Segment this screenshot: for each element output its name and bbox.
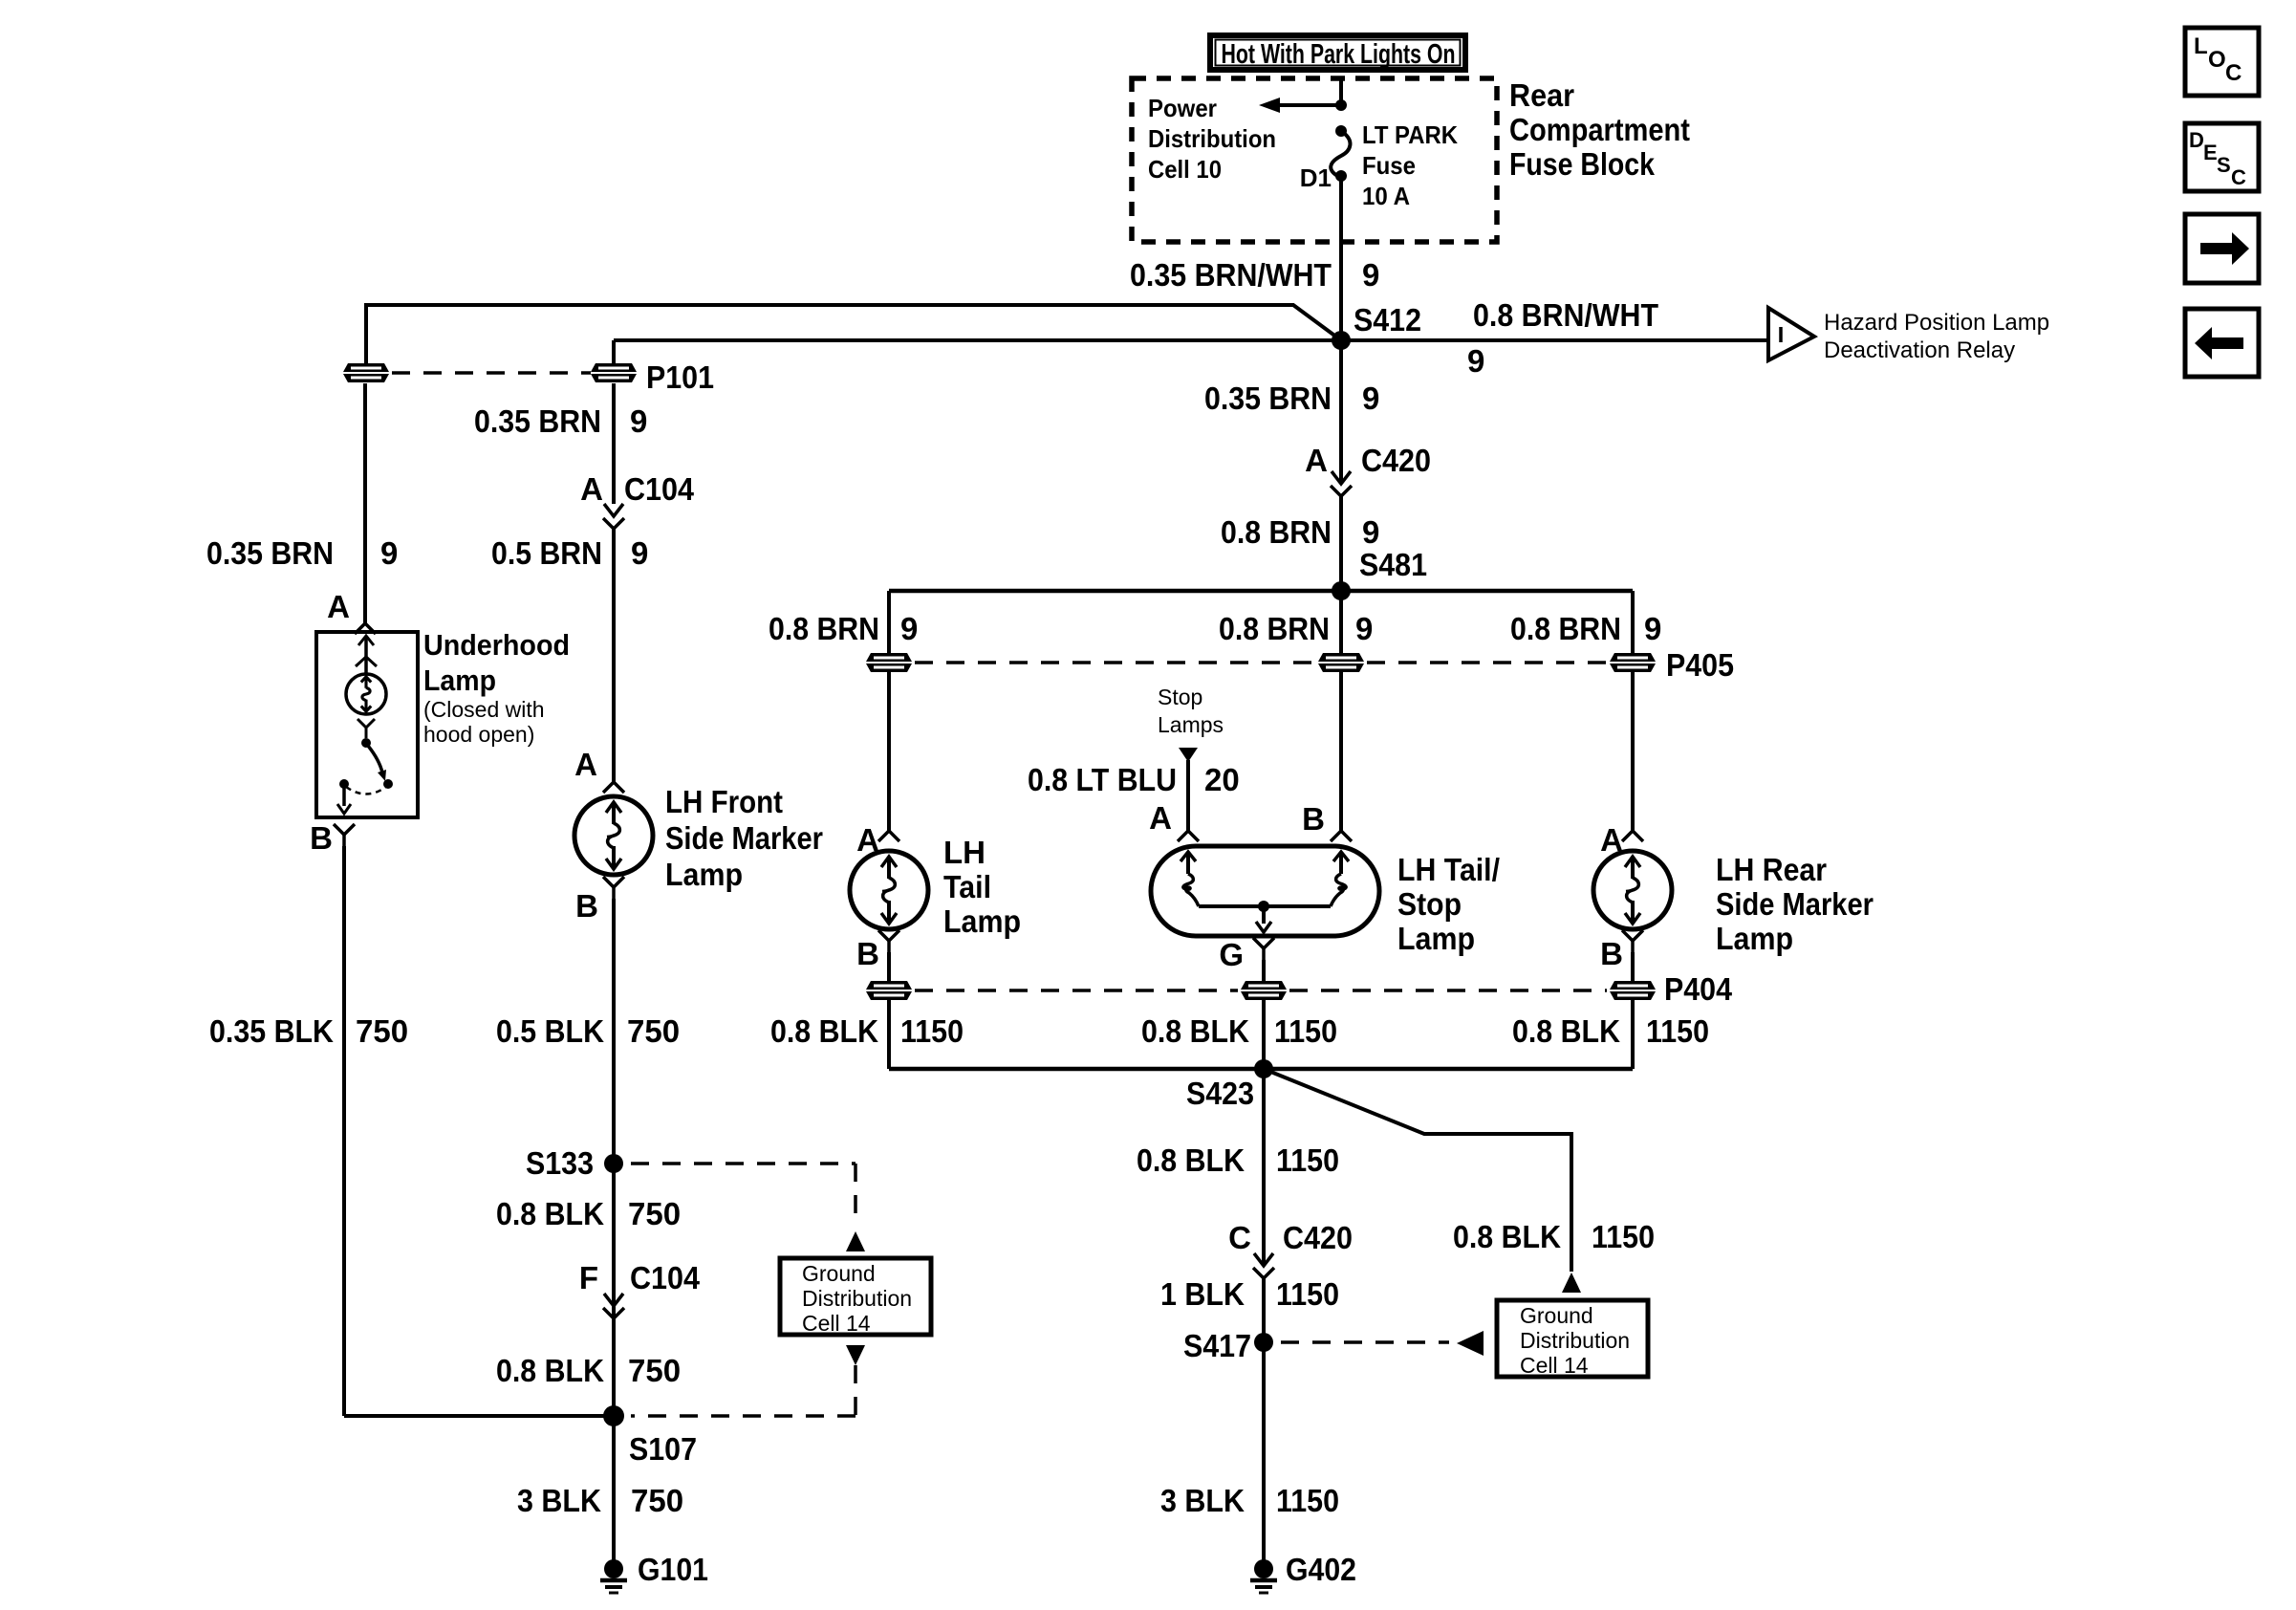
node S133	[604, 1154, 623, 1173]
dashed reference down to S107 bus	[854, 1365, 857, 1416]
svg-text:LH Tail/: LH Tail/	[1397, 852, 1500, 887]
wire to P404 center	[1262, 960, 1266, 981]
wire 0.35 BRN/WHT from fuse to S412	[1339, 176, 1343, 340]
wire to Power Distribution arrow	[1280, 103, 1341, 107]
wire to LH rear marker lamp	[1631, 672, 1635, 831]
svg-text:9: 9	[900, 611, 918, 646]
wire 0.8 BLK right	[1631, 1000, 1635, 1069]
wire branch S423 to right ground leg	[1264, 1069, 1571, 1272]
terminal fork B front marker	[603, 877, 624, 887]
svg-text:3 BLK: 3 BLK	[517, 1483, 601, 1518]
svg-text:Compartment: Compartment	[1509, 112, 1690, 147]
svg-text:0.8 BRN: 0.8 BRN	[769, 611, 879, 646]
svg-text:3 BLK: 3 BLK	[1160, 1483, 1245, 1518]
svg-text:Lamps: Lamps	[1158, 712, 1224, 737]
svg-text:L: L	[2194, 33, 2208, 59]
svg-text:750: 750	[628, 1196, 681, 1231]
wire bus to P101 left (0.35 BRN)	[366, 305, 1341, 363]
svg-text:750: 750	[356, 1013, 408, 1049]
svg-text:Distribution: Distribution	[1520, 1328, 1630, 1353]
connector P404 left grommet	[866, 981, 912, 1000]
svg-text:Power: Power	[1148, 94, 1217, 122]
svg-text:9: 9	[631, 535, 648, 571]
Ground Distribution Cell 14 box (right)	[1497, 1300, 1648, 1377]
DESC icon box	[2185, 123, 2259, 191]
svg-text:Side Marker: Side Marker	[665, 820, 823, 856]
connector P405 left grommet	[866, 653, 912, 672]
svg-text:Underhood: Underhood	[423, 628, 570, 662]
svg-text:B: B	[856, 936, 879, 971]
wire 0.35 BRN to underhood lamp	[363, 383, 367, 623]
wire 0.8 BLK left	[887, 1000, 891, 1069]
svg-text:C104: C104	[630, 1260, 701, 1295]
svg-text:0.8 BLK: 0.8 BLK	[1453, 1219, 1561, 1254]
svg-text:B: B	[1302, 801, 1325, 837]
connector C104 pin F	[604, 1294, 623, 1306]
svg-text:LH Rear: LH Rear	[1716, 852, 1827, 887]
wire 3 BLK 750 to G101	[612, 1416, 616, 1562]
wire 0.5 BRN to front marker lamp	[612, 529, 616, 782]
terminal caret rear marker	[1622, 831, 1643, 841]
ground G402	[1254, 1559, 1273, 1578]
hazard relay destination triangle	[1768, 308, 1814, 360]
svg-text:P404: P404	[1664, 971, 1733, 1007]
svg-text:S: S	[2217, 153, 2231, 177]
svg-text:0.8 BRN: 0.8 BRN	[1219, 611, 1330, 646]
svg-text:9: 9	[380, 535, 398, 571]
svg-text:1 BLK: 1 BLK	[1160, 1276, 1245, 1312]
svg-text:9: 9	[1362, 514, 1379, 550]
connector P404 center grommet	[1241, 981, 1287, 1000]
connector P405 right grommet	[1610, 653, 1656, 672]
svg-text:hood open): hood open)	[423, 722, 534, 747]
wire to LH tail/stop lamp B	[1339, 672, 1343, 831]
svg-text:Lamp: Lamp	[943, 903, 1021, 939]
ground G101	[604, 1559, 623, 1578]
svg-text:A: A	[327, 589, 350, 624]
svg-text:0.35 BRN: 0.35 BRN	[474, 403, 601, 439]
connector C420 pin C	[1254, 1253, 1273, 1266]
svg-text:B: B	[575, 888, 598, 924]
node S423	[1254, 1059, 1273, 1078]
svg-text:Lamp: Lamp	[1397, 921, 1475, 956]
node S481	[1332, 581, 1351, 600]
wire 0.8 BRN to S481	[1339, 496, 1343, 591]
svg-text:9: 9	[1467, 343, 1484, 379]
terminal fork B rear marker	[1622, 930, 1643, 941]
svg-text:F: F	[579, 1260, 598, 1295]
wire 0.35 BRN below P101	[612, 383, 616, 504]
node S107	[603, 1405, 624, 1426]
svg-text:1150: 1150	[1276, 1483, 1339, 1518]
arrow from stop lamps	[1179, 748, 1198, 762]
svg-text:Lamp: Lamp	[1716, 921, 1793, 956]
svg-text:9: 9	[1362, 257, 1379, 293]
svg-text:0.35 BLK: 0.35 BLK	[209, 1013, 334, 1049]
svg-text:0.8 BLK: 0.8 BLK	[1141, 1013, 1249, 1049]
wire 0.8 BRN right drop	[1631, 591, 1635, 653]
svg-text:1150: 1150	[1592, 1219, 1655, 1254]
terminal caret LH tail lamp	[878, 831, 899, 841]
svg-text:9: 9	[1362, 381, 1379, 416]
wire to P404 right	[1631, 952, 1635, 981]
dashed pass-through P101	[392, 371, 591, 375]
svg-text:Stop: Stop	[1158, 685, 1202, 709]
connector P405 center grommet	[1318, 653, 1364, 672]
wire 0.8 BRN center drop	[1339, 591, 1343, 653]
node S417	[1254, 1333, 1273, 1352]
svg-text:D1: D1	[1300, 163, 1332, 192]
svg-text:Cell 10: Cell 10	[1148, 155, 1222, 184]
tail/stop common lead	[1262, 906, 1266, 924]
svg-text:Side Marker: Side Marker	[1716, 886, 1874, 922]
svg-text:0.8 BLK: 0.8 BLK	[496, 1353, 604, 1388]
svg-text:S423: S423	[1186, 1076, 1254, 1111]
svg-text:Tail: Tail	[943, 869, 991, 904]
underhood lamp internal lead A	[364, 636, 368, 673]
dashed reference S417 to Ground Distribution	[1281, 1340, 1449, 1344]
svg-text:S417: S417	[1183, 1328, 1251, 1363]
connector P101 right grommet	[591, 363, 637, 382]
svg-text:20: 20	[1204, 762, 1240, 797]
underhood lamp bulb	[346, 674, 386, 714]
underhood lamp switch	[357, 719, 375, 728]
svg-text:Distribution: Distribution	[1148, 124, 1276, 153]
svg-text:C: C	[1228, 1220, 1251, 1255]
svg-text:Rear: Rear	[1509, 77, 1574, 113]
svg-text:S107: S107	[629, 1431, 697, 1467]
bus S423	[889, 1067, 1633, 1072]
svg-text:Stop: Stop	[1397, 886, 1462, 922]
node S412	[1332, 331, 1351, 350]
svg-text:750: 750	[627, 1013, 680, 1049]
svg-text:Ground: Ground	[1520, 1303, 1593, 1328]
svg-text:S481: S481	[1359, 547, 1427, 582]
svg-text:0.8 BRN: 0.8 BRN	[1510, 611, 1621, 646]
bus S481 to tail lamps	[889, 589, 1633, 594]
svg-text:P405: P405	[1666, 647, 1734, 683]
svg-text:G402: G402	[1286, 1552, 1356, 1587]
svg-text:(Closed with: (Closed with	[423, 697, 545, 722]
wire 0.5 BLK / 0.8 BLK 750 down to S107	[612, 899, 616, 1416]
connector P101 left grommet	[343, 363, 389, 382]
connector C104 pin A	[604, 504, 623, 516]
svg-text:0.8 BLK: 0.8 BLK	[496, 1196, 604, 1231]
svg-text:A: A	[1149, 800, 1172, 836]
svg-text:Fuse Block: Fuse Block	[1509, 146, 1656, 182]
svg-text:Distribution: Distribution	[802, 1286, 912, 1311]
svg-text:Ground: Ground	[802, 1261, 876, 1286]
arrow into ground distribution box (right)	[1457, 1331, 1484, 1356]
svg-text:B: B	[1600, 936, 1623, 971]
wire 0.35 BLK 750	[342, 846, 346, 1416]
svg-text:S133: S133	[526, 1145, 594, 1181]
svg-text:O: O	[2208, 47, 2226, 73]
wire 0.35 BRN S412 to C420	[1339, 340, 1343, 484]
svg-text:9: 9	[1644, 611, 1661, 646]
svg-text:0.8 BLK: 0.8 BLK	[770, 1013, 878, 1049]
wire 0.8 BRN left drop	[887, 591, 891, 653]
terminal caret tail/stop A	[1178, 831, 1199, 841]
svg-text:0.8 BRN: 0.8 BRN	[1221, 514, 1332, 550]
left-arrow icon box	[2185, 309, 2259, 377]
svg-text:B: B	[310, 820, 333, 856]
wire to S107	[344, 1414, 614, 1418]
wire to LH tail lamp	[887, 672, 891, 831]
svg-text:10 A: 10 A	[1362, 182, 1410, 210]
connector P404 right grommet	[1610, 981, 1656, 1000]
wire drop to P101 right grommet	[612, 340, 616, 363]
dashed pass-through P405	[915, 661, 1315, 664]
terminal caret tail/stop B	[1331, 831, 1352, 841]
wire 0.8 BLK S423 to C420	[1262, 1069, 1266, 1266]
terminal caret A front marker	[603, 782, 624, 793]
svg-text:1150: 1150	[1276, 1142, 1339, 1178]
wire to P404 left	[887, 952, 891, 981]
svg-text:0.8 LT BLU: 0.8 LT BLU	[1028, 762, 1177, 797]
svg-text:0.8 BLK: 0.8 BLK	[1512, 1013, 1620, 1049]
arrow down from ground distribution box (left)	[846, 1345, 865, 1365]
svg-text:1150: 1150	[1274, 1013, 1337, 1049]
svg-text:C104: C104	[624, 471, 695, 507]
svg-text:Hazard Position Lamp: Hazard Position Lamp	[1824, 310, 2049, 336]
terminal fork B LH tail lamp	[878, 930, 899, 941]
svg-text:750: 750	[628, 1353, 681, 1388]
lamp LH Rear Side Marker	[1593, 851, 1672, 929]
svg-text:D: D	[2189, 128, 2204, 152]
svg-text:C420: C420	[1361, 443, 1431, 478]
svg-text:E: E	[2203, 141, 2218, 164]
LOC icon box	[2185, 28, 2259, 96]
svg-text:9: 9	[1355, 611, 1373, 646]
svg-text:0.5 BRN: 0.5 BRN	[491, 535, 602, 571]
lamp LH Tail/Stop (dual filament)	[1151, 846, 1379, 936]
svg-text:G: G	[1219, 937, 1244, 972]
svg-text:1150: 1150	[900, 1013, 964, 1049]
Rear Compartment Fuse Block dashed box	[1132, 78, 1497, 242]
svg-text:LH Front: LH Front	[665, 784, 783, 819]
terminal fork B underhood	[334, 824, 355, 835]
svg-text:9: 9	[630, 403, 647, 439]
arrow up to ground distribution box (left)	[846, 1231, 865, 1251]
lamp LH Tail	[850, 851, 928, 929]
svg-text:0.5 BLK: 0.5 BLK	[496, 1013, 604, 1049]
connector C420 pin A	[1332, 471, 1351, 484]
terminal fork G tail/stop	[1253, 938, 1274, 948]
svg-text:C: C	[2231, 165, 2246, 189]
svg-text:Lamp: Lamp	[665, 857, 743, 892]
svg-text:A: A	[574, 747, 597, 782]
svg-text:Hot With Park Lights On: Hot With Park Lights On	[1222, 39, 1456, 70]
svg-text:Deactivation Relay: Deactivation Relay	[1824, 337, 2015, 363]
svg-text:C: C	[2225, 60, 2242, 86]
wire 0.8 BRN/WHT bus to hazard relay	[614, 338, 1766, 342]
svg-text:Cell 14: Cell 14	[1520, 1353, 1589, 1378]
node feed junction inside fuse block	[1335, 99, 1347, 111]
svg-text:0.8 BLK: 0.8 BLK	[1137, 1142, 1245, 1178]
svg-text:1150: 1150	[1646, 1013, 1709, 1049]
"Hot With Park Lights On" power label box	[1210, 35, 1465, 70]
terminal caret A underhood	[355, 623, 376, 634]
dashed pass-through P404	[915, 989, 1238, 992]
fuse LT PARK 10 A	[1335, 125, 1347, 137]
lamp LH Front Side Marker	[574, 796, 653, 875]
svg-text:C420: C420	[1283, 1220, 1353, 1255]
svg-text:1150: 1150	[1276, 1276, 1339, 1312]
svg-text:S412: S412	[1354, 302, 1421, 337]
dashed reference S133 to Ground Distribution	[631, 1162, 856, 1165]
right-arrow icon box	[2185, 214, 2259, 283]
svg-text:P101: P101	[646, 359, 714, 395]
wire 0.8 BLK center	[1262, 1000, 1266, 1069]
svg-text:G101: G101	[638, 1552, 708, 1587]
svg-text:0.35 BRN: 0.35 BRN	[1204, 381, 1332, 416]
svg-text:LT PARK: LT PARK	[1362, 120, 1458, 149]
svg-text:0.35 BRN/WHT: 0.35 BRN/WHT	[1130, 257, 1332, 293]
wire 1 BLK / 3 BLK to G402	[1262, 1278, 1266, 1562]
svg-text:0.35 BRN: 0.35 BRN	[206, 535, 334, 571]
wire 0.8 LT BLU 20	[1186, 760, 1190, 831]
svg-text:0.8 BRN/WHT: 0.8 BRN/WHT	[1473, 297, 1658, 333]
wire from fuse block top border down to feed node	[1339, 80, 1343, 105]
svg-text:LH: LH	[943, 835, 986, 870]
svg-text:Lamp: Lamp	[423, 664, 496, 697]
underhood lamp component box	[316, 632, 418, 817]
svg-text:A: A	[1305, 443, 1328, 478]
svg-text:Fuse: Fuse	[1362, 151, 1416, 180]
svg-text:750: 750	[631, 1483, 683, 1518]
Ground Distribution Cell 14 box (left)	[780, 1258, 931, 1335]
svg-text:Cell 14: Cell 14	[802, 1311, 871, 1336]
arrow to Power Distribution Cell 10	[1259, 98, 1280, 113]
svg-text:A: A	[580, 471, 603, 507]
arrow up to ground distribution box (right)	[1562, 1273, 1581, 1293]
